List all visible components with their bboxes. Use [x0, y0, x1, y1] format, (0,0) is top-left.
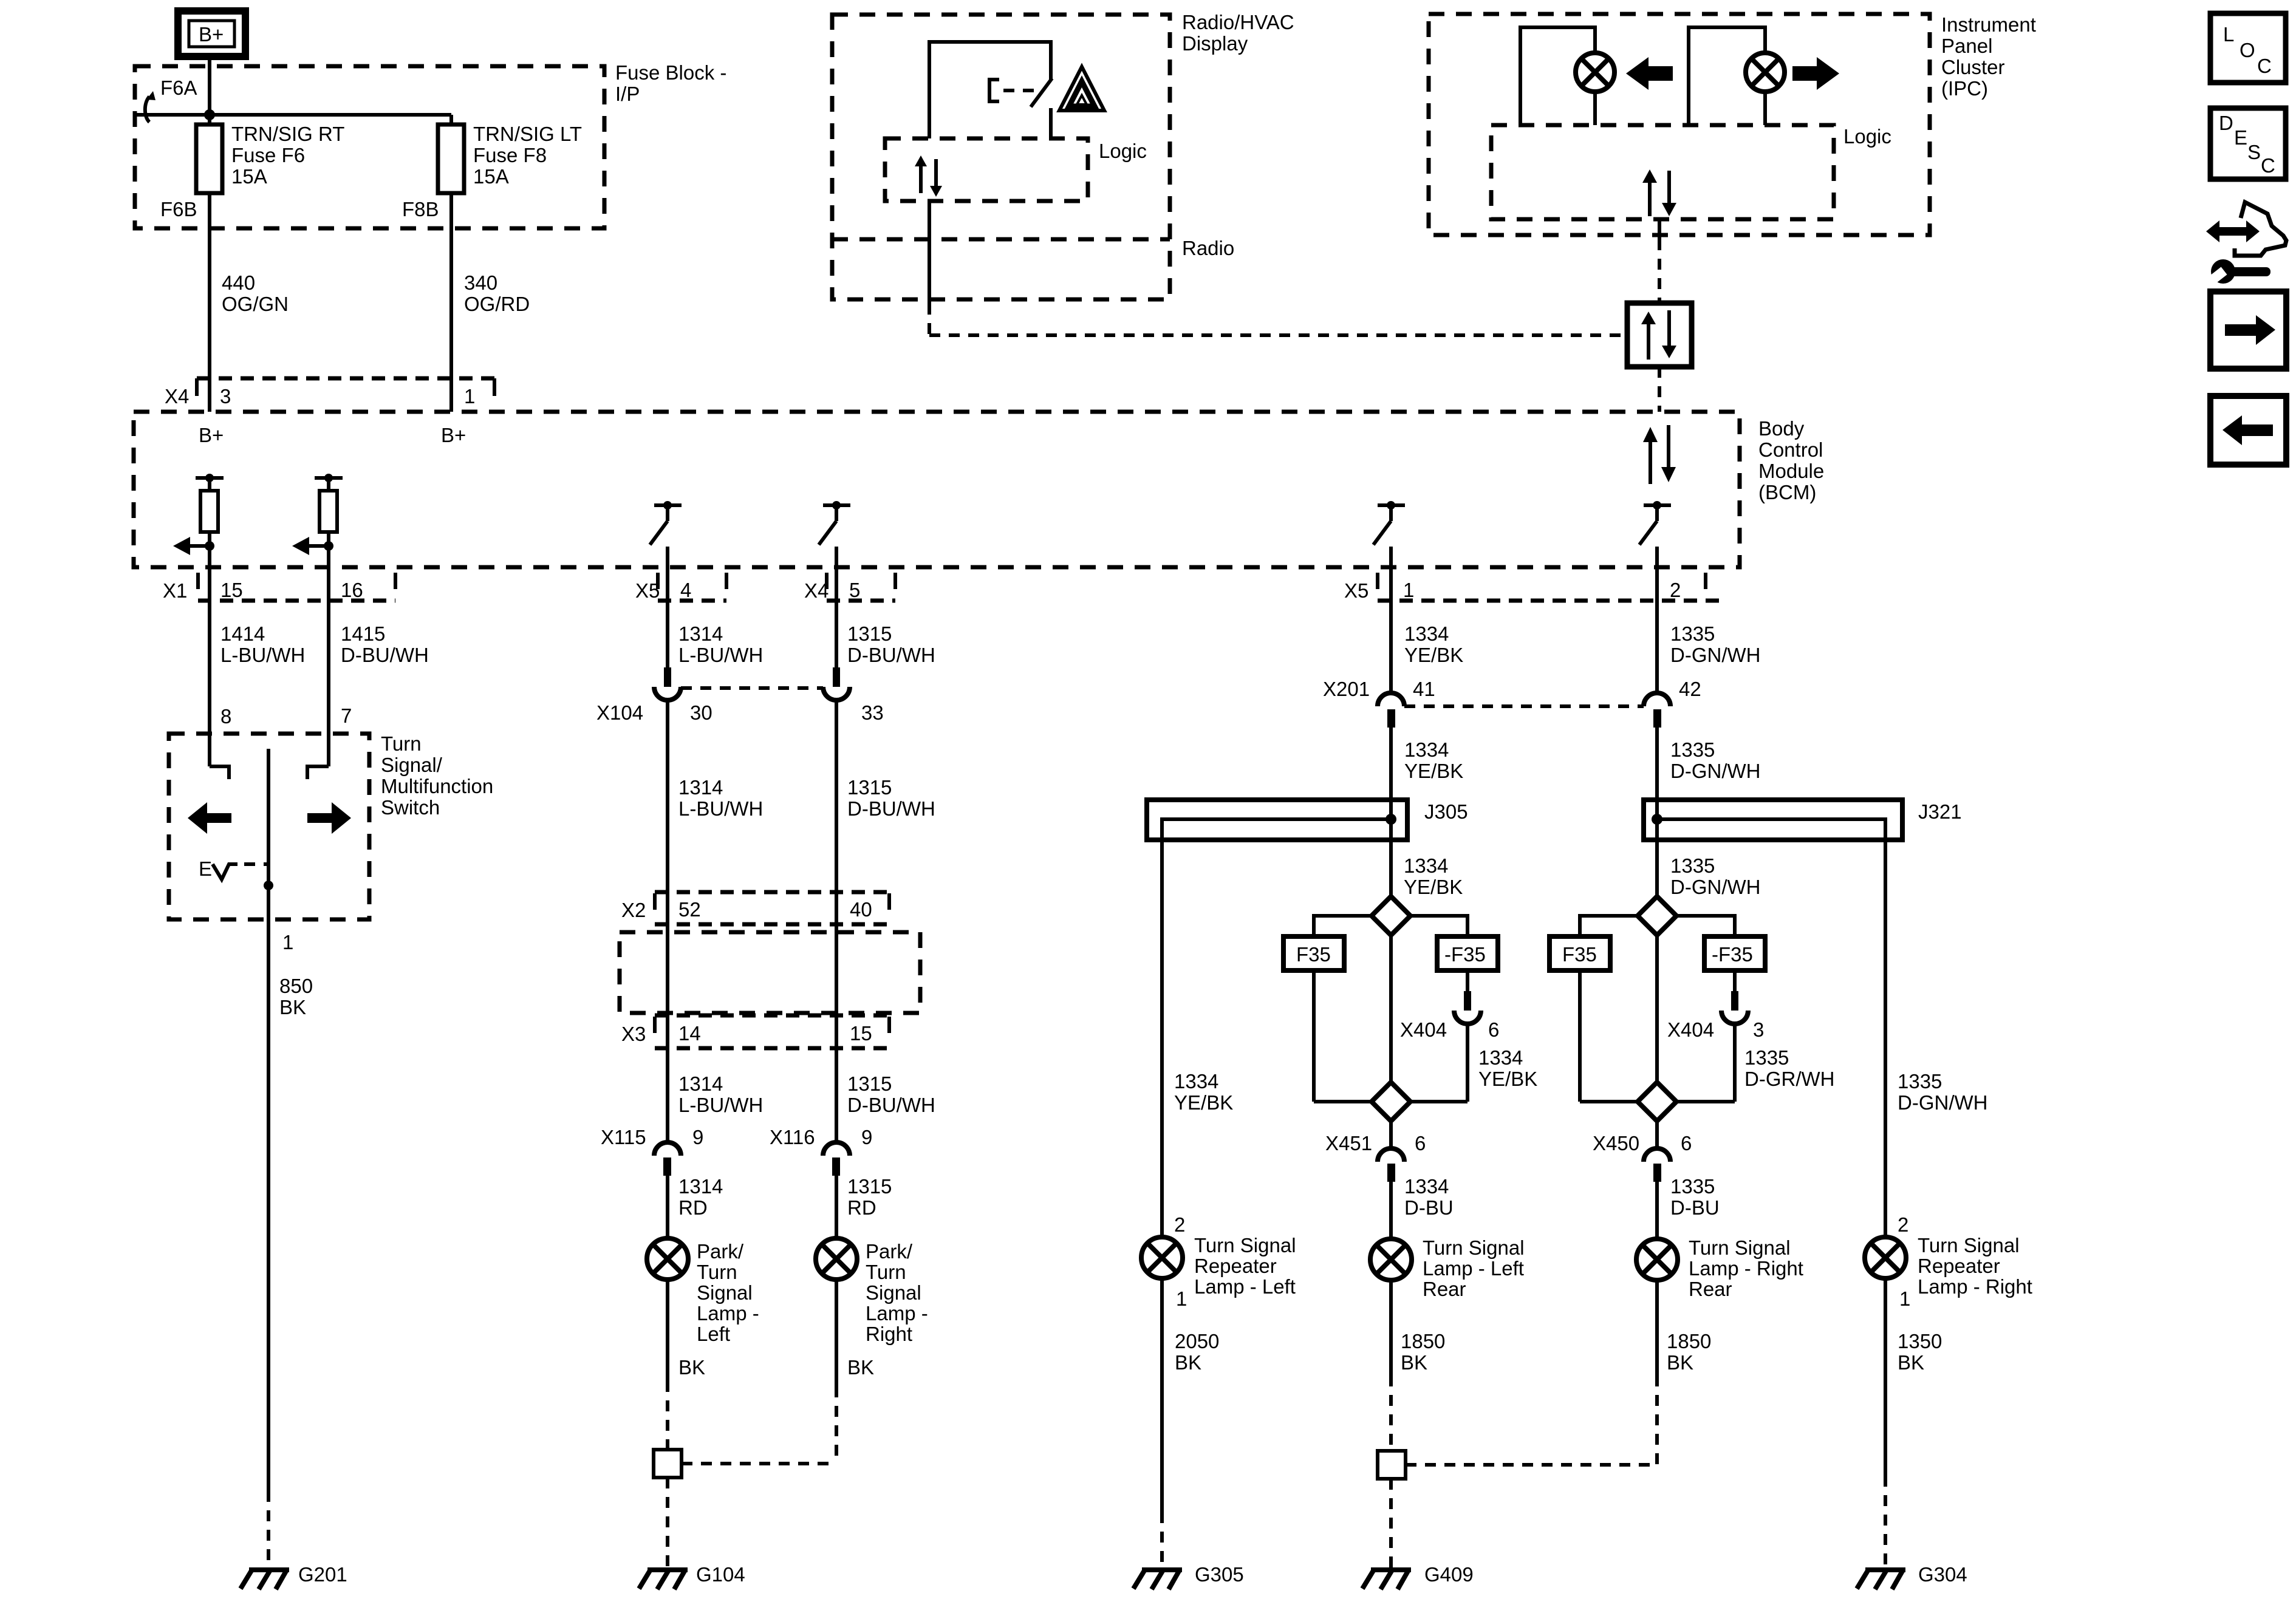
- svg-text:X201: X201: [1323, 678, 1370, 700]
- svg-text:G409: G409: [1424, 1563, 1474, 1586]
- svg-text:2: 2: [1898, 1213, 1908, 1236]
- svg-text:Radio/HVAC: Radio/HVAC: [1182, 11, 1294, 33]
- svg-text:E: E: [199, 857, 212, 880]
- svg-text:D-BU/WH: D-BU/WH: [341, 644, 429, 666]
- battery feed terminal B+: [178, 11, 245, 56]
- turn signal lamp left rear: [1370, 1239, 1412, 1280]
- svg-text:J321: J321: [1918, 800, 1962, 823]
- connector X5 pins 1 and 2: [1344, 573, 1725, 602]
- park/turn signal lamp right label: [866, 1240, 928, 1345]
- right turn arrow: [307, 802, 351, 834]
- svg-text:Turn Signal: Turn Signal: [1423, 1236, 1525, 1259]
- svg-text:Logic: Logic: [1099, 140, 1147, 162]
- svg-text:YE/BK: YE/BK: [1404, 876, 1463, 898]
- splice diamond left upper: [1372, 896, 1410, 935]
- svg-text:Turn Signal: Turn Signal: [1194, 1234, 1296, 1256]
- svg-text:D-GN/WH: D-GN/WH: [1670, 876, 1760, 898]
- svg-text:Lamp - Left: Lamp - Left: [1194, 1275, 1296, 1298]
- svg-text:OG/GN: OG/GN: [222, 293, 289, 315]
- svg-text:1314: 1314: [678, 776, 723, 799]
- svg-text:52: 52: [678, 898, 701, 921]
- svg-text:3: 3: [220, 385, 231, 407]
- svg-text:X404: X404: [1667, 1018, 1714, 1041]
- radio logic serial arrows: [915, 155, 942, 197]
- svg-text:X116: X116: [770, 1126, 815, 1148]
- svg-text:Instrument: Instrument: [1941, 13, 2036, 36]
- ground G304: [1857, 1563, 1967, 1589]
- wire 1335 D-GN/WH segment 3: [1670, 854, 1760, 898]
- svg-text:X404: X404: [1400, 1018, 1447, 1041]
- svg-text:RD: RD: [678, 1196, 708, 1219]
- serial data interface square: [1627, 303, 1692, 367]
- radio/HVAC display label: [1182, 11, 1294, 55]
- svg-text:1335: 1335: [1670, 854, 1715, 877]
- svg-text:9: 9: [692, 1126, 703, 1148]
- svg-text:L-BU/WH: L-BU/WH: [678, 1094, 763, 1116]
- body control module BCM dashed box: [134, 412, 1740, 567]
- svg-text:30: 30: [690, 701, 712, 724]
- svg-text:BK: BK: [1175, 1351, 1201, 1374]
- svg-text:F6B: F6B: [160, 198, 197, 220]
- svg-text:D-BU/WH: D-BU/WH: [847, 797, 935, 820]
- svg-text:Turn: Turn: [697, 1261, 737, 1283]
- svg-text:X104: X104: [596, 701, 643, 724]
- svg-text:1314: 1314: [678, 622, 723, 645]
- turn signal repeater lamp left: [1141, 1237, 1183, 1278]
- svg-text:1315: 1315: [847, 1072, 892, 1095]
- inline harness dashed box: [620, 932, 920, 1013]
- left turn arrow: [188, 802, 231, 834]
- instrument panel cluster dashed box: [1429, 14, 1930, 235]
- svg-text:Fuse F8: Fuse F8: [473, 144, 547, 166]
- svg-text:D-BU/WH: D-BU/WH: [847, 1094, 935, 1116]
- wire 1315 RD: [836, 1175, 892, 1238]
- svg-text:(BCM): (BCM): [1758, 481, 1816, 503]
- park/turn signal lamp left: [647, 1238, 688, 1280]
- svg-text:1415: 1415: [341, 622, 385, 645]
- car body icon: [2235, 202, 2286, 256]
- svg-text:1334: 1334: [1404, 622, 1449, 645]
- svg-text:1315: 1315: [847, 1175, 892, 1198]
- svg-text:Switch: Switch: [381, 796, 440, 819]
- left group branch wires: [1314, 916, 1467, 1082]
- switch left contact: [210, 766, 229, 779]
- BCM output switch for X5-1: [1373, 501, 1405, 545]
- svg-text:2: 2: [1670, 579, 1681, 601]
- wire 1335 D-GN/WH segment 2: [1657, 728, 1760, 896]
- svg-text:42: 42: [1679, 678, 1701, 700]
- svg-text:Module: Module: [1758, 460, 1824, 482]
- fuse element -F35 left: [1437, 936, 1498, 991]
- svg-text:F35: F35: [1296, 943, 1331, 966]
- BCM output switch for X4-5: [819, 501, 850, 545]
- svg-text:TRN/SIG LT: TRN/SIG LT: [473, 123, 582, 145]
- splice diamond right upper: [1638, 896, 1676, 935]
- ground G104: [639, 1563, 745, 1589]
- svg-text:15A: 15A: [473, 165, 509, 188]
- svg-text:1334: 1334: [1404, 738, 1449, 761]
- turn signal lamp left rear label: [1423, 1236, 1525, 1300]
- IPC logic serial arrows: [1642, 169, 1676, 216]
- svg-text:X1: X1: [163, 579, 187, 602]
- splice junction square to G409: [1378, 1451, 1657, 1569]
- hazard warning triangle symbol: [1059, 67, 1104, 111]
- svg-text:BK: BK: [1401, 1351, 1427, 1374]
- svg-text:Radio: Radio: [1182, 237, 1234, 259]
- left indicator lamp loop wire: [1520, 27, 1595, 125]
- wire BK right lamp: [836, 1280, 874, 1464]
- svg-text:1: 1: [1899, 1287, 1910, 1310]
- svg-text:B+: B+: [441, 424, 466, 446]
- BCM label: [1758, 417, 1824, 503]
- svg-text:1334: 1334: [1404, 854, 1448, 877]
- connector X2 (pins 52 and 40): [621, 892, 889, 924]
- BCM right turn driver (resistor and arrow): [292, 474, 343, 567]
- svg-text:1314: 1314: [678, 1175, 723, 1198]
- BCM output switch for X5-2: [1639, 501, 1671, 545]
- svg-text:2: 2: [1174, 1213, 1185, 1236]
- fuse F8 label: [473, 123, 582, 188]
- svg-text:YE/BK: YE/BK: [1404, 760, 1463, 782]
- svg-text:1334: 1334: [1478, 1046, 1523, 1069]
- connector X4 of BCM (pins 3 and 1): [165, 378, 494, 407]
- svg-text:TRN/SIG RT: TRN/SIG RT: [231, 123, 344, 145]
- svg-text:X5: X5: [635, 579, 660, 602]
- svg-text:D-BU: D-BU: [1670, 1196, 1720, 1219]
- svg-text:440: 440: [222, 271, 255, 294]
- svg-text:Signal/: Signal/: [381, 754, 443, 776]
- svg-text:6: 6: [1681, 1132, 1692, 1154]
- svg-text:X451: X451: [1325, 1132, 1372, 1154]
- BCM output switch for X5-4: [650, 501, 682, 545]
- svg-text:Multifunction: Multifunction: [381, 775, 493, 797]
- wire 850 BK: [268, 919, 313, 1569]
- right turn indicator lamp: [1746, 53, 1785, 125]
- svg-text:2050: 2050: [1175, 1330, 1219, 1352]
- svg-text:Repeater: Repeater: [1918, 1255, 2000, 1277]
- svg-text:F8B: F8B: [402, 198, 439, 220]
- fuse element F35 right: [1549, 936, 1610, 1102]
- hazard switch actuator bracket: [989, 80, 1036, 101]
- svg-text:1314: 1314: [678, 1072, 723, 1095]
- wire 1314 L-BU/WH segment 1: [668, 547, 763, 667]
- splice diamond left lower: [1314, 1082, 1467, 1121]
- svg-text:RD: RD: [847, 1196, 876, 1219]
- wire 1850 BK right rear: [1657, 1280, 1711, 1465]
- svg-text:S: S: [2247, 141, 2261, 163]
- serial data bus to BCM: [1658, 367, 1661, 412]
- wire 1850 BK left rear: [1391, 1280, 1445, 1451]
- svg-text:-F35: -F35: [1444, 943, 1486, 966]
- wire 1314 L-BU/WH segment 3: [678, 1072, 763, 1116]
- hazard switch wiring loop: [929, 42, 1051, 138]
- wire 1335 D-GN/WH repeater right: [1885, 840, 1987, 1237]
- svg-text:1: 1: [282, 931, 293, 953]
- turn signal repeater lamp right: [1865, 1237, 1906, 1278]
- wire B+ to fuse block: [208, 56, 211, 115]
- svg-text:Lamp - Left: Lamp - Left: [1423, 1257, 1524, 1280]
- wire 1334 YE/BK segment 3: [1404, 854, 1463, 898]
- svg-text:G304: G304: [1918, 1563, 1967, 1586]
- svg-text:3: 3: [1753, 1018, 1764, 1041]
- wire 1335 D-GR/WH after X404: [1735, 1024, 1834, 1102]
- svg-text:Body: Body: [1758, 417, 1805, 440]
- svg-text:340: 340: [464, 271, 497, 294]
- svg-text:1: 1: [464, 385, 475, 407]
- serial data wire from radio: [929, 201, 1627, 335]
- svg-text:YE/BK: YE/BK: [1404, 644, 1463, 666]
- svg-text:D-GN/WH: D-GN/WH: [1898, 1091, 1987, 1114]
- switch common wire: [264, 749, 273, 919]
- svg-text:Turn: Turn: [381, 732, 422, 755]
- svg-text:Right: Right: [866, 1323, 912, 1345]
- wire 440 OG/GN: [210, 193, 289, 412]
- svg-text:D-BU: D-BU: [1404, 1196, 1454, 1219]
- left turn legend box: [2210, 396, 2286, 465]
- svg-text:41: 41: [1413, 678, 1435, 700]
- svg-text:1850: 1850: [1401, 1330, 1445, 1352]
- fusible tap curve: [145, 91, 155, 122]
- svg-text:E: E: [2234, 126, 2247, 149]
- DESC legend box: [2210, 108, 2286, 179]
- wire 1415 D-BU/WH: [329, 567, 429, 766]
- right group branch wires: [1580, 916, 1735, 1082]
- svg-text:Display: Display: [1182, 32, 1248, 55]
- fuse F8: [438, 124, 464, 193]
- svg-text:BK: BK: [678, 1356, 705, 1379]
- svg-text:J305: J305: [1424, 800, 1468, 823]
- svg-text:Fuse Block -: Fuse Block -: [615, 61, 726, 84]
- svg-text:Panel: Panel: [1941, 35, 1992, 57]
- wire BK left lamp: [668, 1280, 705, 1450]
- ground G409: [1362, 1563, 1474, 1589]
- svg-text:BK: BK: [1667, 1351, 1693, 1374]
- svg-text:Control: Control: [1758, 438, 1823, 461]
- svg-text:1334: 1334: [1174, 1070, 1218, 1093]
- fuse F6: [196, 124, 222, 193]
- hazard switch blade: [1031, 78, 1052, 138]
- svg-text:D: D: [2219, 112, 2233, 134]
- svg-text:X2: X2: [621, 899, 646, 921]
- svg-text:Lamp - Right: Lamp - Right: [1689, 1257, 1803, 1280]
- svg-text:X4: X4: [165, 385, 189, 407]
- svg-text:6: 6: [1415, 1132, 1426, 1154]
- svg-text:Park/: Park/: [866, 1240, 913, 1263]
- svg-text:Park/: Park/: [697, 1240, 744, 1263]
- wire 1334 D-BU: [1391, 1175, 1454, 1239]
- svg-text:X3: X3: [621, 1023, 646, 1045]
- IPC logic dashed box: [1491, 125, 1891, 219]
- svg-text:14: 14: [678, 1022, 701, 1045]
- fuse element -F35 right: [1704, 936, 1765, 991]
- svg-text:9: 9: [861, 1126, 872, 1148]
- svg-text:1: 1: [1176, 1287, 1187, 1310]
- splice diamond right lower: [1580, 1082, 1735, 1121]
- inline connector X451 pin 6: [1325, 1121, 1426, 1182]
- svg-text:1335: 1335: [1670, 622, 1715, 645]
- wire 1314 RD: [668, 1175, 723, 1238]
- inline connector X104 pin 30: [596, 667, 823, 724]
- BCM left turn driver (resistor and arrow): [173, 474, 224, 567]
- wire 1315 D-BU/WH segment 2: [836, 700, 935, 1142]
- connector X4 pin 5: [804, 573, 895, 602]
- splice pack J321: [1644, 800, 1962, 840]
- inline connector X116 pin 9: [770, 1126, 872, 1176]
- switch actuator E symbol: [199, 857, 268, 880]
- wire 1350 BK: [1885, 1278, 1942, 1569]
- svg-text:L-BU/WH: L-BU/WH: [678, 644, 763, 666]
- svg-text:Lamp -: Lamp -: [697, 1302, 759, 1325]
- turn signal lamp right rear label: [1689, 1236, 1803, 1300]
- right indicator arrow: [1792, 57, 1839, 90]
- svg-text:OG/RD: OG/RD: [464, 293, 530, 315]
- svg-text:1: 1: [1403, 579, 1414, 601]
- svg-text:X115: X115: [601, 1126, 646, 1148]
- svg-text:L-BU/WH: L-BU/WH: [678, 797, 763, 820]
- svg-text:D-GR/WH: D-GR/WH: [1744, 1068, 1834, 1090]
- svg-text:Logic: Logic: [1843, 125, 1891, 148]
- inline connector X104 pin 33: [823, 667, 884, 724]
- svg-text:X5: X5: [1344, 579, 1368, 602]
- svg-text:B+: B+: [199, 424, 224, 446]
- svg-text:G104: G104: [696, 1563, 745, 1586]
- svg-text:G305: G305: [1195, 1563, 1244, 1586]
- svg-text:4: 4: [680, 579, 691, 601]
- fuse element F35 left: [1283, 936, 1344, 1102]
- svg-text:YE/BK: YE/BK: [1174, 1091, 1233, 1114]
- left indicator arrow: [1626, 57, 1673, 90]
- wire 1335 D-GN/WH segment 1: [1657, 547, 1760, 693]
- svg-text:1850: 1850: [1667, 1330, 1711, 1352]
- svg-text:Left: Left: [697, 1323, 730, 1345]
- park/turn signal lamp right: [816, 1238, 857, 1280]
- svg-text:16: 16: [341, 579, 363, 601]
- svg-text:Turn: Turn: [866, 1261, 906, 1283]
- ground G305: [1133, 1563, 1244, 1589]
- splice junction square to G104: [654, 1450, 836, 1569]
- radio logic dashed box: [885, 138, 1147, 201]
- turn signal repeater lamp left label: [1194, 1234, 1296, 1298]
- svg-text:(IPC): (IPC): [1941, 77, 1988, 100]
- svg-text:D-GN/WH: D-GN/WH: [1670, 760, 1760, 782]
- wire 1335 D-BU: [1657, 1175, 1720, 1239]
- svg-text:BK: BK: [847, 1356, 874, 1379]
- svg-text:15A: 15A: [231, 165, 267, 188]
- radio sub box: [832, 237, 1234, 259]
- svg-text:C: C: [2261, 154, 2275, 177]
- inline connector X404 pin 3: [1667, 991, 1764, 1041]
- wire 340 OG/RD: [451, 193, 530, 412]
- svg-text:B+: B+: [199, 23, 224, 46]
- right turn legend box: [2210, 291, 2286, 369]
- svg-text:L: L: [2223, 23, 2234, 46]
- svg-text:D-BU/WH: D-BU/WH: [847, 644, 935, 666]
- svg-text:YE/BK: YE/BK: [1478, 1068, 1537, 1090]
- svg-text:O: O: [2240, 39, 2255, 61]
- svg-text:1315: 1315: [847, 622, 892, 645]
- svg-text:1414: 1414: [220, 622, 265, 645]
- wire B+ bus inside fuse block: [137, 109, 451, 124]
- svg-text:G201: G201: [298, 1563, 347, 1586]
- svg-text:BK: BK: [1898, 1351, 1924, 1374]
- svg-text:1335: 1335: [1670, 1175, 1715, 1198]
- splice pack J305: [1147, 800, 1468, 840]
- left turn indicator lamp: [1576, 53, 1614, 125]
- svg-text:1350: 1350: [1898, 1330, 1942, 1352]
- svg-text:15: 15: [220, 579, 243, 601]
- svg-text:6: 6: [1488, 1018, 1499, 1041]
- turn signal multifunction switch dashed box: [169, 734, 369, 919]
- inline connector X201 pin 41: [1323, 678, 1644, 728]
- svg-text:850: 850: [279, 975, 313, 997]
- fuse F6 label: [231, 123, 344, 188]
- svg-text:1315: 1315: [847, 776, 892, 799]
- park/turn signal lamp left label: [697, 1240, 759, 1345]
- svg-text:Rear: Rear: [1689, 1278, 1732, 1300]
- svg-text:F6A: F6A: [160, 77, 197, 99]
- svg-text:1335: 1335: [1744, 1046, 1789, 1069]
- wire 1334 YE/BK segment 2: [1391, 728, 1463, 896]
- radio/HVAC display dashed box: [832, 15, 1170, 299]
- wrench icon: [2198, 259, 2270, 293]
- svg-text:I/P: I/P: [615, 83, 640, 105]
- serial data bus from IPC: [1658, 219, 1661, 303]
- switch right contact: [307, 766, 329, 779]
- svg-text:BK: BK: [279, 996, 306, 1018]
- fuse block I/P dashed box: [135, 66, 604, 228]
- svg-text:40: 40: [850, 898, 872, 921]
- ground G201: [241, 1563, 347, 1589]
- BCM serial arrows: [1643, 425, 1676, 484]
- switch label: [381, 732, 493, 819]
- svg-text:D-GN/WH: D-GN/WH: [1670, 644, 1760, 666]
- svg-text:Signal: Signal: [866, 1281, 921, 1304]
- inline connector X115 pin 9: [601, 1126, 703, 1176]
- svg-text:L-BU/WH: L-BU/WH: [220, 644, 305, 666]
- svg-text:Repeater: Repeater: [1194, 1255, 1277, 1277]
- double arrow icon: [2206, 220, 2260, 242]
- IPC label: [1941, 13, 2036, 100]
- svg-text:15: 15: [850, 1022, 872, 1045]
- svg-text:Fuse F6: Fuse F6: [231, 144, 305, 166]
- svg-text:X450: X450: [1593, 1132, 1639, 1154]
- turn signal repeater lamp right label: [1918, 1234, 2032, 1298]
- svg-text:-F35: -F35: [1712, 943, 1753, 966]
- wire 1315 D-BU/WH segment 1: [836, 547, 935, 667]
- connector X3 (pins 14 and 15): [621, 1015, 889, 1048]
- wire 1334 YE/BK after X404: [1467, 1024, 1537, 1102]
- svg-text:F35: F35: [1562, 943, 1597, 966]
- connector X5 pin 4: [635, 573, 726, 602]
- inline connector X404 pin 6: [1400, 991, 1499, 1041]
- wire 1314 L-BU/WH segment 2: [668, 700, 763, 1142]
- svg-text:5: 5: [849, 579, 860, 601]
- svg-text:8: 8: [220, 705, 231, 728]
- inline connector X450 pin 6: [1593, 1121, 1692, 1182]
- svg-text:Cluster: Cluster: [1941, 56, 2005, 78]
- LOC legend box: [2210, 13, 2286, 83]
- wire 1414 L-BU/WH: [210, 567, 305, 766]
- svg-text:1335: 1335: [1898, 1070, 1942, 1093]
- inline connector X201 pin 42: [1644, 678, 1701, 728]
- svg-text:1334: 1334: [1404, 1175, 1449, 1198]
- svg-text:C: C: [2257, 55, 2272, 77]
- right indicator lamp loop wire: [1689, 27, 1765, 125]
- svg-text:Lamp -: Lamp -: [866, 1302, 928, 1325]
- wire 2050 BK: [1162, 1278, 1219, 1569]
- svg-text:Lamp - Right: Lamp - Right: [1918, 1275, 2032, 1298]
- svg-text:7: 7: [341, 704, 352, 727]
